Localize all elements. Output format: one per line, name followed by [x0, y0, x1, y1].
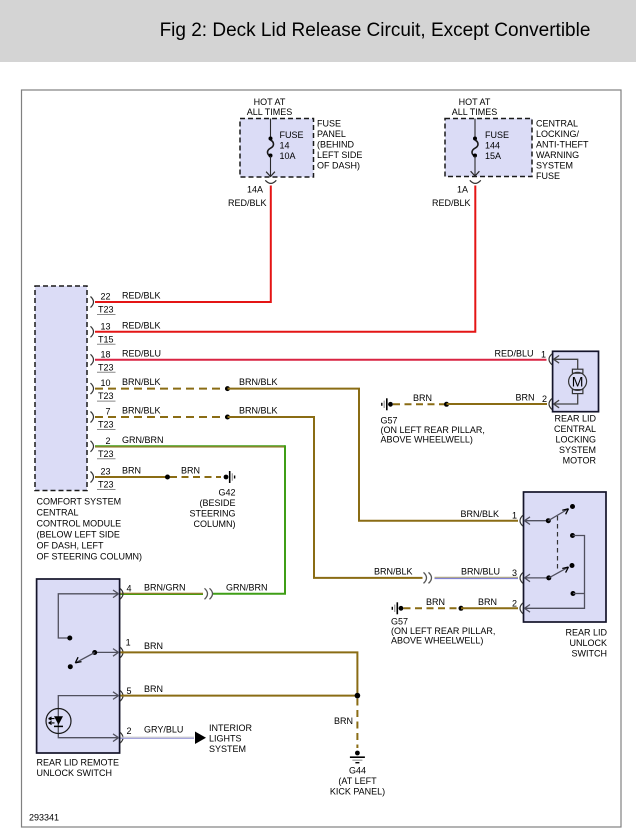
- svg-text:CENTRAL: CENTRAL: [554, 424, 596, 434]
- svg-text:10A: 10A: [280, 151, 296, 161]
- label G44 (AT LEFT KICK PANEL): [330, 766, 385, 797]
- svg-text:2: 2: [105, 436, 110, 446]
- wire GRY/BLU remote switch pin 2 to interior lights: [121, 724, 195, 738]
- svg-text:5: 5: [127, 686, 132, 696]
- rear lid remote unlock switch box: [37, 579, 120, 753]
- svg-text:14A: 14A: [247, 185, 263, 195]
- wire RED/BLU module pin 18 to motor pin 1: [95, 359, 547, 361]
- svg-text:T23: T23: [98, 362, 114, 372]
- wire BRN down to G44: [334, 699, 357, 749]
- svg-text:BRN/BLK: BRN/BLK: [239, 406, 278, 416]
- svg-text:BRN/BLK: BRN/BLK: [461, 509, 500, 519]
- ground G44: [350, 751, 365, 763]
- label 1A RED/BLK: [432, 185, 471, 209]
- svg-text:REAR LID REMOTE: REAR LID REMOTE: [37, 758, 120, 768]
- svg-text:BRN/BLK: BRN/BLK: [239, 377, 278, 387]
- svg-text:OF DASH, LEFT: OF DASH, LEFT: [37, 541, 105, 551]
- svg-text:WARNING: WARNING: [536, 150, 579, 160]
- svg-text:CONTROL MODULE: CONTROL MODULE: [37, 519, 122, 529]
- ground G57 (upper): [382, 398, 393, 410]
- svg-text:SYSTEM: SYSTEM: [536, 161, 573, 171]
- module pin 22 connector: [91, 291, 161, 315]
- module pin 23 connector: [91, 466, 142, 490]
- svg-text:2: 2: [512, 598, 517, 608]
- label REAR LID REMOTE UNLOCK SWITCH: [37, 758, 120, 779]
- svg-text:T23: T23: [98, 449, 114, 459]
- svg-text:144: 144: [485, 141, 500, 151]
- remote switch pin 5 connector: [120, 686, 132, 701]
- svg-text:REAR LID: REAR LID: [554, 414, 596, 424]
- svg-text:ABOVE WHEELWELL): ABOVE WHEELWELL): [391, 636, 483, 646]
- svg-text:(AT LEFT: (AT LEFT: [338, 776, 377, 786]
- arrow to interior lights system: [195, 732, 206, 745]
- label G57 (ON LEFT REAR PILLAR, ABOVE WHEELWELL) lower: [391, 617, 495, 646]
- svg-text:RED/BLK: RED/BLK: [122, 320, 161, 330]
- svg-text:RED/BLK: RED/BLK: [228, 198, 267, 208]
- svg-text:REAR LID: REAR LID: [565, 628, 607, 638]
- svg-text:LEFT SIDE: LEFT SIDE: [317, 150, 362, 160]
- central locking fuse box (dashed): [445, 119, 532, 177]
- ground G42: [224, 471, 235, 483]
- svg-text:T23: T23: [98, 480, 114, 490]
- svg-text:ABOVE WHEELWELL): ABOVE WHEELWELL): [381, 435, 473, 445]
- svg-text:G44: G44: [349, 766, 366, 776]
- svg-text:FUSE: FUSE: [485, 130, 509, 140]
- svg-text:CENTRAL: CENTRAL: [536, 119, 578, 129]
- svg-text:MOTOR: MOTOR: [563, 456, 597, 466]
- svg-text:13: 13: [100, 321, 110, 331]
- svg-text:OF DASH): OF DASH): [317, 161, 360, 171]
- module pin 18 connector: [91, 348, 162, 372]
- svg-text:G57: G57: [391, 617, 408, 627]
- svg-text:Fig 2: Deck Lid Release Circui: Fig 2: Deck Lid Release Circuit, Except …: [160, 20, 591, 41]
- svg-text:OF STEERING COLUMN): OF STEERING COLUMN): [37, 552, 143, 562]
- svg-text:1: 1: [512, 511, 517, 521]
- svg-text:T15: T15: [98, 334, 114, 344]
- svg-text:14: 14: [280, 141, 290, 151]
- label G57 (ON LEFT REAR PILLAR, ABOVE WHEELWELL) upper: [381, 416, 485, 445]
- module pin 13 connector: [91, 320, 161, 344]
- svg-text:4: 4: [127, 583, 132, 593]
- remote switch pin 4 connector: [120, 583, 132, 599]
- label FUSE PANEL (BEHIND LEFT SIDE OF DASH): [317, 119, 362, 171]
- unlock switch pin 2 connector: [512, 598, 523, 614]
- svg-text:BRN: BRN: [413, 393, 432, 403]
- fuse F144 15A: [471, 119, 509, 177]
- svg-text:BRN/GRN: BRN/GRN: [144, 582, 186, 592]
- module text block: [37, 497, 143, 562]
- svg-text:BRN/BLK: BRN/BLK: [122, 377, 161, 387]
- svg-text:COMFORT SYSTEM: COMFORT SYSTEM: [37, 497, 122, 507]
- svg-text:RED/BLK: RED/BLK: [122, 291, 161, 301]
- unlock switch pin 1 connector: [461, 509, 524, 526]
- svg-text:FUSE: FUSE: [280, 130, 304, 140]
- connector below fuse F14: [265, 180, 276, 183]
- module pin 2 connector: [91, 435, 164, 459]
- svg-text:15A: 15A: [485, 151, 501, 161]
- svg-text:GRN/BRN: GRN/BRN: [122, 435, 164, 445]
- wire BRN G57 to motor pin 2: [393, 393, 547, 407]
- wire BRN/BLK module pin 10 to unlock switch pin 1: [95, 377, 518, 521]
- motor pin 1 connector: [541, 349, 552, 365]
- wire BRN remote switch pin 5: [121, 684, 361, 698]
- svg-text:BRN: BRN: [426, 597, 445, 607]
- ground G57 (lower): [392, 602, 403, 614]
- wire GRN/BRN module pin 2 down: [95, 445, 285, 594]
- svg-text:LOCKING: LOCKING: [555, 435, 596, 445]
- wire BRN remote switch pin 1: [121, 641, 358, 696]
- wire BRN/GRN to remote switch pin 4: [121, 582, 204, 594]
- svg-text:GRN/BRN: GRN/BRN: [226, 582, 268, 592]
- svg-text:UNLOCK SWITCH: UNLOCK SWITCH: [37, 768, 113, 778]
- svg-text:3: 3: [512, 568, 517, 578]
- svg-text:LIGHTS: LIGHTS: [209, 734, 242, 744]
- module pin 10 connector: [91, 377, 161, 401]
- label 14A RED/BLK: [228, 185, 267, 209]
- svg-text:1: 1: [126, 638, 131, 648]
- label INTERIOR LIGHTS SYSTEM: [209, 723, 253, 754]
- svg-text:22: 22: [100, 292, 110, 302]
- label HOT AT ALL TIMES (right): [452, 97, 498, 117]
- svg-text:LOCKING/: LOCKING/: [536, 129, 580, 139]
- svg-text:23: 23: [100, 467, 110, 477]
- unlock switch internals: [525, 504, 585, 612]
- LED in remote switch: [46, 709, 71, 734]
- svg-text:RED/BLK: RED/BLK: [432, 198, 471, 208]
- svg-text:T23: T23: [98, 305, 114, 315]
- svg-text:2: 2: [127, 726, 132, 736]
- svg-text:T23: T23: [98, 420, 114, 430]
- remote switch pin 2 connector: [120, 726, 132, 743]
- svg-text:M: M: [572, 374, 584, 390]
- remote switch pin 1 connector: [120, 638, 131, 658]
- svg-text:(BEHIND: (BEHIND: [317, 140, 355, 150]
- rear lid unlock switch box: [524, 492, 607, 622]
- svg-text:HOT AT: HOT AT: [254, 97, 286, 107]
- svg-text:PANEL: PANEL: [317, 129, 346, 139]
- fuse panel box (dashed): [240, 119, 314, 178]
- rear lid central locking system motor box: [553, 351, 599, 411]
- wire BRN/BLK module pin 7 toward unlock switch pin 3: [95, 406, 423, 578]
- inline connector on wire to pin 3: [424, 572, 432, 583]
- svg-text:SYSTEM: SYSTEM: [559, 445, 596, 455]
- svg-text:ALL TIMES: ALL TIMES: [247, 107, 293, 117]
- wire BRN/BLU to unlock switch pin 3: [435, 566, 519, 578]
- svg-text:(ON LEFT REAR PILLAR,: (ON LEFT REAR PILLAR,: [391, 626, 495, 636]
- svg-text:(BESIDE: (BESIDE: [199, 498, 235, 508]
- motor pin 2 connector: [542, 394, 552, 410]
- label G42 (BESIDE STEERING COLUMN): [189, 488, 235, 530]
- svg-text:GRY/BLU: GRY/BLU: [144, 724, 183, 734]
- svg-text:BRN/BLK: BRN/BLK: [122, 406, 161, 416]
- svg-text:T23: T23: [98, 391, 114, 401]
- svg-text:293341: 293341: [29, 813, 59, 823]
- svg-text:G57: G57: [381, 416, 398, 426]
- svg-text:G42: G42: [218, 488, 235, 498]
- svg-text:UNLOCK: UNLOCK: [569, 638, 607, 648]
- svg-text:18: 18: [100, 349, 110, 359]
- module pin 7 connector: [91, 406, 161, 430]
- inline connector on wire to remote switch pin 4: [205, 588, 213, 599]
- svg-text:FUSE: FUSE: [317, 119, 341, 129]
- svg-text:SYSTEM: SYSTEM: [209, 744, 246, 754]
- svg-text:STEERING: STEERING: [189, 509, 235, 519]
- comfort system module box (dashed): [35, 286, 87, 491]
- svg-text:(ON LEFT REAR PILLAR,: (ON LEFT REAR PILLAR,: [381, 425, 485, 435]
- wire RED/BLK fuse144 to module pin 13: [95, 186, 475, 332]
- svg-text:ANTI-THEFT: ANTI-THEFT: [536, 140, 589, 150]
- svg-text:(BELOW LEFT SIDE: (BELOW LEFT SIDE: [37, 530, 120, 540]
- title bar: [0, 0, 636, 62]
- wire BRN G57 to unlock switch pin 2: [404, 597, 519, 611]
- unlock switch pin 3 connector: [512, 568, 523, 584]
- svg-text:BRN: BRN: [181, 466, 200, 476]
- svg-text:HOT AT: HOT AT: [459, 97, 491, 107]
- svg-text:FUSE: FUSE: [536, 171, 560, 181]
- svg-text:1: 1: [541, 349, 546, 359]
- svg-text:INTERIOR: INTERIOR: [209, 723, 253, 733]
- svg-text:ALL TIMES: ALL TIMES: [452, 107, 498, 117]
- label CENTRAL LOCKING/ANTI-THEFT WARNING SYSTEM FUSE: [536, 119, 589, 182]
- svg-text:BRN/BLU: BRN/BLU: [461, 566, 500, 576]
- svg-text:BRN/BLK: BRN/BLK: [374, 566, 413, 576]
- svg-text:KICK PANEL): KICK PANEL): [330, 787, 385, 797]
- remote switch internals: [58, 590, 118, 742]
- svg-text:RED/BLU: RED/BLU: [494, 348, 533, 358]
- svg-text:BRN: BRN: [144, 684, 163, 694]
- svg-text:2: 2: [542, 394, 547, 404]
- label HOT AT ALL TIMES (left): [247, 97, 293, 117]
- wire BRN module pin 23 to G42: [95, 466, 221, 480]
- svg-text:RED/BLU: RED/BLU: [122, 348, 161, 358]
- svg-text:BRN: BRN: [334, 716, 353, 726]
- label REAR LID UNLOCK SWITCH: [565, 628, 607, 659]
- svg-text:COLUMN): COLUMN): [194, 519, 236, 529]
- svg-text:BRN: BRN: [478, 597, 497, 607]
- svg-text:10: 10: [100, 378, 110, 388]
- svg-text:BRN: BRN: [122, 466, 141, 476]
- motor U1 internals: [554, 356, 587, 408]
- svg-text:CENTRAL: CENTRAL: [37, 508, 79, 518]
- wire RED/BLK fuse14 to module pin 22: [95, 186, 271, 303]
- svg-text:1A: 1A: [457, 185, 468, 195]
- label REAR LID CENTRAL LOCKING SYSTEM MOTOR: [554, 414, 597, 466]
- svg-text:SWITCH: SWITCH: [572, 649, 608, 659]
- fuse F14 10A: [266, 119, 303, 177]
- svg-text:7: 7: [105, 407, 110, 417]
- svg-text:BRN: BRN: [516, 393, 535, 403]
- connector below fuse F144: [470, 180, 481, 183]
- svg-text:BRN: BRN: [144, 641, 163, 651]
